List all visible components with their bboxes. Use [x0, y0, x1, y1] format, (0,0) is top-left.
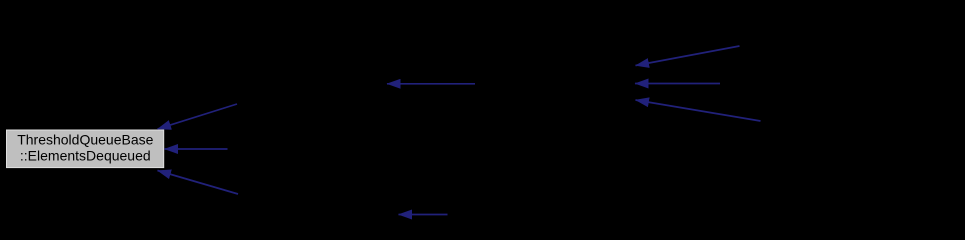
edge arrow C: second-level caller -> lower caller node — [399, 214, 448, 216]
edge arrow D2: third-level caller (middle) -> second-level node — [635, 83, 720, 85]
svg-text:::ElementsDequeued: ::ElementsDequeued — [20, 147, 151, 163]
edge arrow A1: upper caller -> ThresholdQueueBase::ElementsDequeued — [158, 104, 238, 129]
edge arrow D3: third-level caller (bottom) -> second-level node — [636, 100, 761, 121]
edge arrow A2: middle caller -> ThresholdQueueBase::ElementsDequeued — [165, 148, 228, 150]
edge arrow D1: third-level caller (top) -> second-level node — [636, 46, 740, 66]
edge arrow B: second-level caller -> upper caller node — [387, 83, 475, 85]
svg-text:ThresholdQueueBase: ThresholdQueueBase — [17, 132, 153, 148]
edge arrow A3: lower caller -> ThresholdQueueBase::ElementsDequeued — [158, 171, 239, 195]
node: ThresholdQueueBase::ElementsDequeued (grey highlighted node) — [7, 130, 164, 168]
